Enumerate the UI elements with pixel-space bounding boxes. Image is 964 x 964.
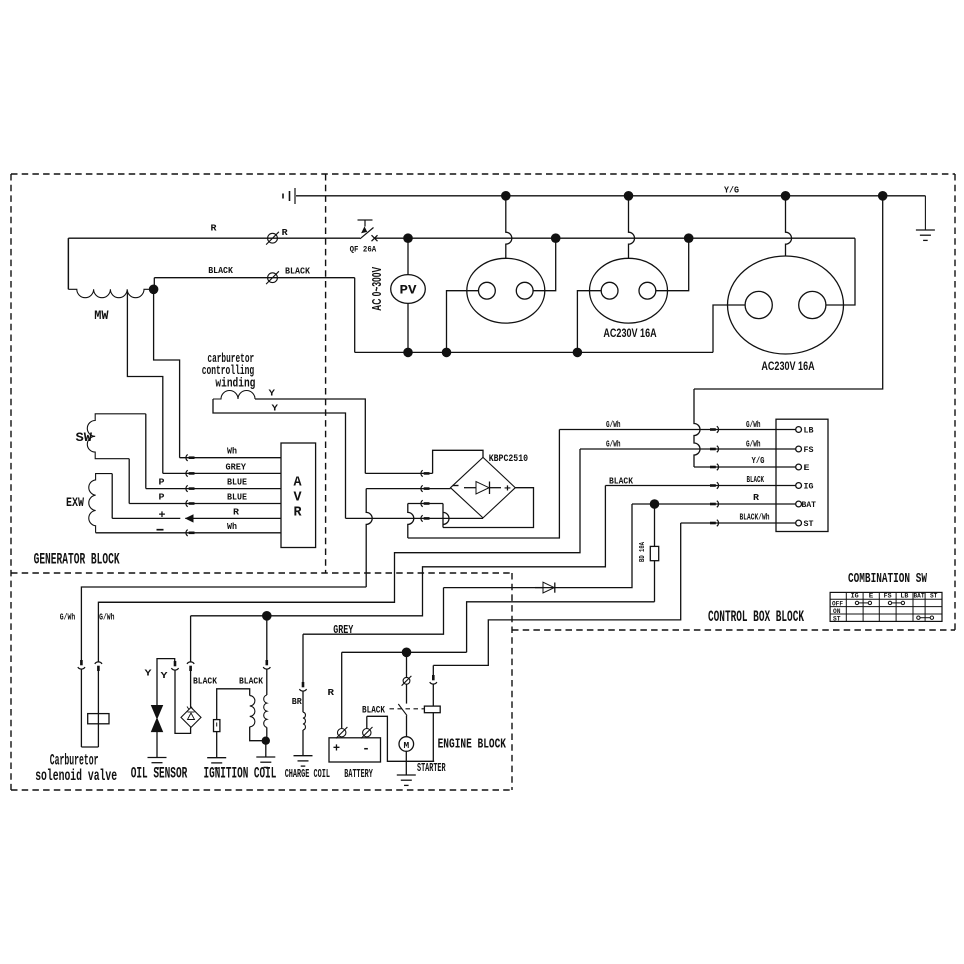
svg-text:E: E: [869, 593, 874, 600]
svg-text:ENGINE BLOCK: ENGINE BLOCK: [438, 738, 507, 753]
wire starter switch upper: [406, 684, 408, 703]
wire R left vertical: [67, 238, 69, 289]
svg-text:MW: MW: [94, 308, 109, 323]
terminal LB: [796, 427, 814, 436]
terminal BAT: [796, 501, 816, 510]
engine block right dashed border: [511, 573, 513, 790]
wire BAT to diode corner: [444, 504, 633, 588]
svg-text:Wh: Wh: [227, 521, 237, 532]
svg-text:BATTERY: BATTERY: [344, 767, 373, 781]
wire QF dot to PV: [407, 238, 409, 274]
label SW: [76, 430, 93, 445]
wire IG staircase: [191, 486, 606, 616]
diode D1: [535, 582, 555, 593]
svg-text:+: +: [333, 742, 340, 756]
svg-text:GENERATOR BLOCK: GENERATOR BLOCK: [34, 551, 121, 569]
svg-text:OIL SENSOR: OIL SENSOR: [131, 765, 188, 783]
junction dot Y/G right: [878, 191, 888, 201]
wire ignition secondary top: [217, 689, 250, 720]
socket 2 earth drop: [629, 196, 635, 258]
socket 3 earth drop: [786, 196, 792, 256]
wire MW tap to AVR GREY: [127, 291, 162, 474]
label BLACK oil: [193, 676, 217, 687]
svg-text:FS: FS: [884, 593, 892, 600]
connector symbol on BLACK line: [266, 271, 279, 284]
svg-text:Y: Y: [145, 668, 152, 679]
wire BLACK to IG: [605, 482, 795, 488]
chassis connector symbol top-left: [283, 188, 295, 204]
battery minus connector: [361, 727, 372, 738]
label Y/G E: [752, 456, 765, 466]
wire ignition primary top: [263, 616, 270, 695]
wire BLACK/Wh to ST: [681, 520, 796, 526]
wire solenoid bottom: [81, 746, 98, 748]
terminal FS: [796, 446, 814, 455]
svg-text:BLACK: BLACK: [239, 676, 263, 687]
junction dot socket1 neutral: [442, 348, 452, 358]
wire MW dot to AVR Wh: [154, 289, 180, 457]
wire battery R: [342, 652, 467, 728]
label GREY avr: [226, 461, 247, 472]
wire starter center: [406, 652, 408, 677]
socket 2 (AC outlet): [590, 258, 668, 323]
label G/Wh LB left: [606, 420, 621, 430]
winding EXW: [89, 474, 112, 533]
starter relay coil: [424, 706, 440, 713]
label OIL SENSOR: [131, 765, 188, 783]
wire BLUE1 to AVR: [146, 485, 281, 491]
svg-text:+: +: [159, 510, 166, 522]
svg-text:CONTROL BOX BLOCK: CONTROL BOX BLOCK: [708, 608, 804, 626]
wire bridge minus down to solenoid: [366, 489, 372, 587]
wire battery minus: [367, 716, 434, 761]
svg-text:winding: winding: [215, 375, 255, 390]
svg-text:R: R: [211, 223, 217, 234]
svg-text:G/Wh: G/Wh: [60, 612, 76, 623]
socket 1 earth drop: [506, 196, 512, 258]
svg-text:ST: ST: [804, 520, 814, 529]
svg-text:BLUE: BLUE: [227, 492, 247, 503]
connector symbol on R line: [266, 232, 279, 245]
wire R to BAT: [632, 501, 796, 507]
starter connector: [402, 676, 412, 686]
socket 3 right pin wire: [826, 238, 855, 305]
rectifier KBPC2510 diamond: [451, 457, 516, 518]
wire R line right segment: [375, 237, 856, 239]
label BLACK IG left: [609, 475, 633, 486]
ground spark plug: [207, 758, 226, 768]
svg-text:G/Wh: G/Wh: [606, 420, 621, 430]
wire ST staircase: [433, 523, 680, 665]
svg-text:GREY: GREY: [333, 623, 354, 637]
svg-text:BLUE: BLUE: [227, 477, 247, 488]
oil level switch bow-tie: [152, 706, 163, 732]
svg-text:STARTER: STARTER: [417, 761, 446, 775]
label AC230V 16A socket2: [603, 326, 657, 340]
connector oil Y: [171, 661, 178, 670]
wire R line left segment: [68, 237, 360, 239]
svg-text:BLACK: BLACK: [747, 475, 765, 485]
label GREY: [333, 623, 354, 637]
svg-text:P: P: [159, 492, 165, 503]
spark plug: [214, 720, 220, 732]
label BD 10A: [639, 541, 647, 562]
fuse BD 10A: [650, 546, 658, 560]
label Y oil left: [145, 668, 152, 679]
svg-text:G/Wh: G/Wh: [746, 420, 761, 430]
winding SW: [87, 414, 146, 459]
socket 3 (AC outlet 16A): [728, 256, 844, 354]
ground ignition coil: [256, 757, 275, 767]
label BLUE 1: [227, 477, 247, 488]
svg-text:AC230V 16A: AC230V 16A: [761, 359, 815, 373]
junction dot Y/G socket3: [781, 191, 791, 201]
label Wh 1: [227, 446, 237, 457]
svg-text:EXW: EXW: [66, 495, 84, 510]
label QF 26A: [350, 245, 377, 255]
wire bridge plus down: [408, 504, 414, 539]
wire MW dot up to BLACK line: [153, 278, 155, 290]
wire BLACK line: [154, 277, 354, 279]
starter switch blade: [398, 704, 407, 716]
wire SW top to AVR BLUE1: [145, 414, 147, 489]
svg-text:P: P: [159, 476, 165, 487]
label BLACK/Wh: [740, 513, 770, 523]
svg-text:G/Wh: G/Wh: [746, 440, 761, 450]
label IGNITION COIL: [204, 765, 277, 783]
wire R to AVR with arrow: [112, 515, 281, 522]
svg-text:LB: LB: [804, 427, 814, 436]
socket 2 left pin wire: [577, 291, 601, 353]
label ENGINE BLOCK: [438, 738, 507, 753]
breaker QF 26A: [358, 220, 378, 241]
mechanical link dashes: [390, 708, 425, 710]
wire Wh to AVR: [180, 455, 281, 461]
junction dot MW output: [149, 285, 159, 295]
winding carburetor controlling: [213, 391, 255, 400]
wire bow-tie to ground: [156, 732, 158, 758]
generator block / control box block top dashed border: [11, 173, 955, 175]
wire bridge plus row: [408, 500, 443, 506]
label GENERATOR BLOCK: [34, 551, 121, 569]
wire PV to neutral bus: [407, 303, 409, 352]
label BLACK IG right: [747, 475, 765, 485]
svg-text:KBPC2510: KBPC2510: [489, 453, 528, 465]
AVR box: [281, 443, 316, 548]
svg-text:BLACK: BLACK: [193, 676, 217, 687]
junction dot Y/G socket2: [624, 191, 634, 201]
label STARTER: [417, 761, 446, 775]
junction dot starter feed: [402, 648, 412, 658]
socket 3 left pin wire: [713, 305, 745, 352]
junction dot fuse top: [650, 499, 660, 509]
contacts OFF IG-E: [855, 601, 871, 604]
oil sensor diode diamond: [181, 707, 201, 728]
label Wh 2: [227, 521, 237, 532]
wire fuse to battery R: [467, 602, 655, 653]
label BLACK right: [285, 266, 310, 277]
junction dot PV bottom: [403, 348, 413, 358]
label BLACK ignition: [239, 676, 263, 687]
table row labels: [832, 600, 843, 622]
svg-text:FS: FS: [804, 446, 814, 455]
socket 2 right pin wire: [656, 238, 689, 291]
label AC230V 16A socket3: [761, 359, 815, 373]
carburetor solenoid coil: [88, 714, 109, 724]
wire Wh minus to AVR: [96, 530, 281, 536]
svg-text:V: V: [293, 490, 302, 505]
wire bridge plus right loop: [443, 488, 534, 528]
label G/Wh FS right: [746, 440, 761, 450]
label Y2: [272, 402, 279, 413]
junction dot QF output: [403, 233, 413, 243]
label AC 0~300V: [370, 267, 384, 311]
label CHARGE COIL: [285, 767, 330, 781]
wire EXW top to AVR R: [111, 474, 113, 519]
ground oil sensor: [148, 758, 167, 768]
label COMBINATION SW: [848, 572, 928, 587]
terminal ST: [796, 520, 814, 529]
socket 1 right pin wire: [533, 238, 556, 291]
svg-text:BD 10A: BD 10A: [639, 541, 647, 562]
svg-text:ST: ST: [833, 615, 841, 622]
svg-text:IG: IG: [851, 593, 859, 600]
svg-text:R: R: [753, 493, 760, 503]
wire charge coil ground: [302, 730, 304, 756]
svg-text:Y: Y: [269, 387, 276, 398]
wire Y1 row to bridge top: [365, 470, 432, 476]
wire spark plug ground: [216, 732, 218, 758]
svg-text:BLACK: BLACK: [208, 265, 233, 276]
ground starter: [397, 775, 416, 785]
wire oil sensor BLACK: [187, 616, 194, 708]
label plus bridge: [504, 484, 511, 495]
meter PV: [391, 275, 426, 304]
contacts ST BAT-ST: [917, 616, 934, 619]
label MW: [94, 308, 109, 323]
socket 1 (AC outlet): [467, 258, 545, 323]
junction dot Y/G socket1: [501, 191, 511, 201]
control box block bottom dashed border: [512, 629, 955, 631]
wire bridge minus row: [366, 485, 450, 491]
label G/Wh solenoid right: [99, 612, 115, 623]
left dashed border (generator + engine blocks): [10, 174, 12, 790]
label carburetor controlling winding: [202, 351, 256, 391]
svg-text:BLACK: BLACK: [362, 705, 385, 716]
wire ignition primary bottom: [266, 727, 267, 757]
wire oil sensor Y left: [157, 659, 175, 706]
wire Y2 row to bridge bottom: [346, 515, 484, 521]
engine block bottom dashed border: [11, 789, 512, 791]
svg-text:-: -: [362, 741, 370, 756]
label R left: [211, 223, 217, 234]
label KBPC2510: [489, 453, 528, 465]
svg-text:+: +: [504, 484, 511, 495]
label BLACK left: [208, 265, 233, 276]
generator/control divider dashed: [325, 174, 327, 573]
label G/Wh LB right: [746, 420, 761, 430]
control box block right dashed border: [954, 174, 956, 630]
wire neutral bus: [355, 351, 713, 353]
battery plus connector: [336, 727, 347, 738]
svg-text:ST: ST: [930, 593, 938, 600]
svg-text:R: R: [293, 506, 302, 521]
ground symbol top right: [916, 196, 935, 241]
svg-text:BLACK: BLACK: [609, 475, 633, 486]
wire BLUE2 to AVR: [129, 500, 281, 506]
wire solenoid right: [95, 602, 395, 747]
winding MW: [68, 238, 150, 297]
wire Y2 from winding: [213, 399, 346, 518]
wire Y/G to E: [694, 389, 796, 470]
svg-text:G/Wh: G/Wh: [606, 440, 621, 450]
svg-text:solenoid valve: solenoid valve: [35, 767, 117, 785]
svg-text:COMBINATION SW: COMBINATION SW: [848, 572, 928, 587]
wire charge coil: [299, 634, 306, 712]
label P 2: [159, 492, 165, 503]
svg-text:R: R: [282, 227, 288, 238]
junction dot socket2 neutral: [573, 348, 583, 358]
wire GREY riser: [303, 588, 444, 635]
label BR: [292, 696, 302, 707]
svg-text:Y: Y: [272, 402, 279, 413]
svg-text:ON: ON: [833, 608, 841, 615]
svg-text:M: M: [403, 740, 409, 751]
label AVR: [293, 475, 302, 520]
label Carburetor solenoid valve: [35, 752, 117, 786]
junction dot ignition bottom: [262, 737, 270, 745]
connector block box: [776, 419, 828, 531]
label G/Wh solenoid left: [60, 612, 76, 623]
svg-text:AC230V 16A: AC230V 16A: [603, 326, 657, 340]
wire FS staircase: [98, 449, 580, 602]
label R BAT: [753, 493, 760, 503]
label BLUE 2: [227, 492, 247, 503]
label BLACK switch: [362, 705, 385, 716]
wire bridge plus up: [443, 504, 449, 528]
label P 1: [159, 476, 165, 487]
wire ignition secondary bottom: [250, 727, 266, 741]
junction dot socket1 live: [551, 233, 561, 243]
label EXW: [66, 495, 84, 510]
wire bridge top link: [433, 450, 483, 473]
wire BLACK down to neutral bus: [354, 278, 356, 353]
contacts OFF FS-LB: [888, 601, 904, 604]
terminal E: [796, 464, 810, 473]
socket 1 left pin wire: [447, 291, 479, 353]
wire fuse branch: [654, 504, 656, 602]
svg-text:R: R: [328, 687, 335, 698]
svg-text:IGNITION COIL: IGNITION COIL: [204, 765, 277, 783]
starter motor M: [399, 737, 414, 752]
svg-text:OFF: OFF: [832, 600, 843, 607]
junction dot ignition BLACK: [262, 611, 272, 621]
table headers: [851, 593, 938, 600]
wire oil sensor Y right: [175, 670, 191, 733]
svg-text:GREY: GREY: [226, 461, 247, 472]
junction dot socket2 live: [684, 233, 694, 243]
svg-text:BLACK/Wh: BLACK/Wh: [740, 513, 770, 523]
wire solenoid left: [78, 587, 366, 747]
svg-text:A: A: [293, 475, 302, 490]
wire LB staircase: [408, 430, 560, 539]
combination switch table grid: [830, 592, 942, 621]
label BATTERY: [344, 767, 373, 781]
wire motor to ground: [405, 751, 407, 775]
svg-text:CHARGE COIL: CHARGE COIL: [285, 767, 330, 781]
svg-text:Wh: Wh: [227, 446, 237, 457]
wire SW bottom to AVR BLUE2: [128, 459, 130, 504]
label Y1: [269, 387, 276, 398]
ground charge coil: [294, 756, 313, 766]
charge coil winding: [303, 712, 305, 730]
wire Y/G right to connector E: [694, 196, 883, 389]
wire GREY to AVR: [163, 470, 281, 476]
label R battery: [328, 687, 335, 698]
svg-text:QF 26A: QF 26A: [350, 245, 377, 255]
svg-text:IG: IG: [804, 483, 814, 492]
label CONTROL BOX BLOCK: [708, 608, 804, 626]
svg-text:BAT: BAT: [914, 593, 925, 600]
svg-text:BR: BR: [292, 696, 302, 707]
svg-text:R: R: [233, 506, 239, 517]
label Y oil right: [161, 670, 168, 681]
generator bottom / engine top dashed border: [11, 572, 512, 574]
svg-text:Y: Y: [161, 670, 168, 681]
svg-text:LB: LB: [900, 593, 908, 600]
label Y/G: [724, 185, 739, 195]
label R right: [282, 227, 288, 238]
wire switch to motor: [406, 716, 408, 737]
svg-text:G/Wh: G/Wh: [99, 612, 115, 623]
svg-text:SW: SW: [76, 430, 93, 445]
wire G/Wh to FS: [580, 446, 796, 452]
svg-text:Y/G: Y/G: [752, 456, 765, 466]
wire relay to return: [432, 713, 434, 762]
wire Y/G top bus: [296, 195, 925, 197]
svg-text:BLACK: BLACK: [285, 266, 310, 277]
wire G/Wh to LB: [559, 426, 795, 432]
ignition secondary winding: [250, 696, 255, 727]
svg-text:AC 0~300V: AC 0~300V: [370, 267, 384, 311]
ignition primary winding: [264, 695, 267, 727]
label minus: [157, 529, 164, 531]
svg-text:E: E: [804, 464, 810, 473]
svg-text:PV: PV: [400, 283, 417, 298]
starter relay wire: [430, 665, 437, 706]
svg-text:BAT: BAT: [802, 501, 817, 510]
label R avr: [233, 506, 239, 517]
label G/Wh FS left: [606, 440, 621, 450]
wire Y1 from winding: [255, 399, 365, 473]
battery box: [329, 738, 381, 762]
label plus: [159, 510, 166, 522]
terminal IG: [796, 483, 814, 492]
svg-text:Y/G: Y/G: [724, 185, 739, 195]
